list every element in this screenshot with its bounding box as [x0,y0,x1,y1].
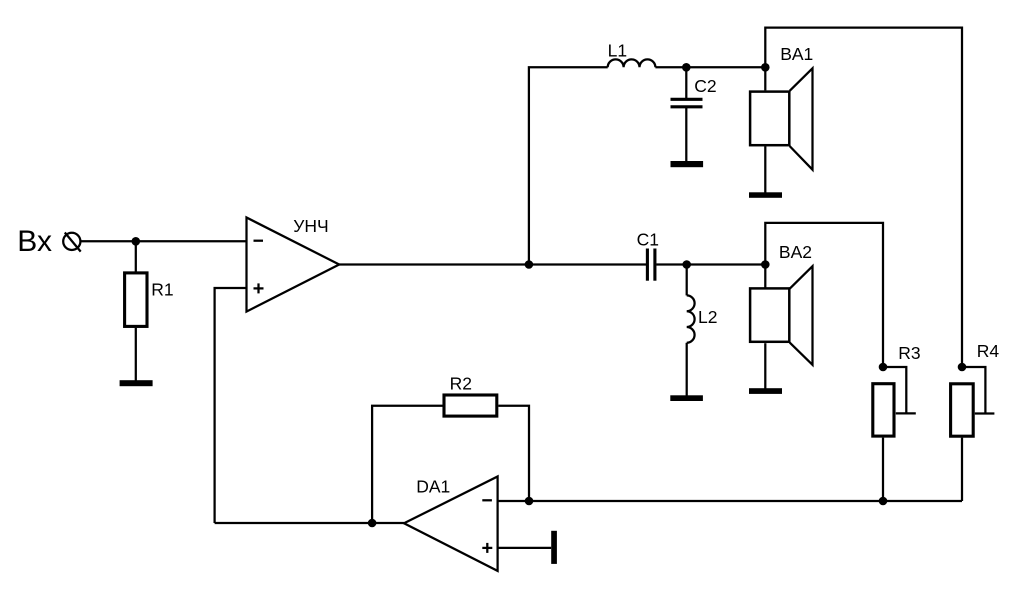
wire DA1 non-inverting input [498,547,552,549]
wire BA1 top lead [764,67,766,90]
wire C2 top lead [685,67,687,98]
loudspeaker BA1 [750,44,813,170]
svg-text:R1: R1 [151,280,173,300]
ground L2 [670,395,703,401]
node R3 top [879,363,888,372]
svg-text:УНЧ: УНЧ [293,216,328,236]
wire R2 left lead down to DA1 output [372,406,442,523]
wire DA1 inverting input bus to R3/R4 [498,500,962,502]
loudspeaker BA2 [750,242,812,365]
node input/R1 junction [132,237,141,246]
resistor R1 [125,273,174,327]
svg-text:C1: C1 [637,230,659,250]
wire R1 bottom lead [135,328,137,381]
svg-text:BA2: BA2 [779,242,812,262]
wire BA1 bottom lead [764,146,766,192]
wire R4 bottom lead [961,438,963,501]
node BA1 junction [761,63,770,72]
node R3/bus junction [879,497,888,506]
wire BA2 bottom lead [764,343,766,388]
node C1/L2 junction [682,260,691,269]
ground DA1 non-inverting input [551,531,557,564]
wire BA1 node to R4 (top right run) [765,28,962,367]
inductor L2 [687,295,718,342]
op-amp DA1 (feedback amplifier) [404,476,498,571]
svg-text:R3: R3 [898,343,920,363]
wire input to op-amp inverting input [80,240,246,242]
wire C2 bottom lead [685,108,687,162]
capacitor C2 [671,76,717,107]
variable resistor R3 [873,343,921,436]
wire L2 top lead [686,265,688,296]
node УНЧ output junction [525,260,534,269]
variable resistor R4 [951,341,1000,436]
capacitor C1 [637,230,659,281]
svg-text:R2: R2 [450,374,472,394]
node DA1 inverting/R2 junction [525,497,534,506]
wire R2 right lead down to DA1 inverting input [498,406,529,501]
wire BA2 top lead [764,265,766,289]
node DA1 output/R2 junction [368,519,377,528]
node BA2 junction [761,260,770,269]
wire R1 top lead [135,241,137,272]
svg-text:BA1: BA1 [780,44,813,64]
wire L2 bottom lead [686,343,688,396]
svg-text:C2: C2 [694,76,716,96]
op-amp УНЧ (power amplifier) [247,216,340,312]
wire УНЧ output to C1 [339,263,646,265]
ground BA2 [749,388,782,394]
svg-text:DA1: DA1 [416,476,450,496]
ground BA1 [749,192,782,198]
wire BA2 node to R3 (upper run) [765,223,883,367]
ground C2 [671,161,704,167]
wire УНЧ non-inverting input (feedback from DA1) [215,288,247,523]
connector XS1 input jack [63,233,80,252]
svg-text:R4: R4 [977,341,1000,361]
svg-text:L2: L2 [698,307,717,327]
resistor R2 [444,374,497,417]
wire output node up to L1 [529,67,608,264]
wire DA1 output to УНЧ feedback corner [215,522,404,524]
svg-text:L1: L1 [608,40,627,60]
wire C1 to BA2 [656,263,765,265]
node R4 top [958,363,967,372]
wire R3 bottom lead [882,438,884,501]
node L1/C2 junction [682,63,691,72]
inductor L1 [608,40,656,67]
svg-text:Вх: Вх [17,225,52,258]
wire L1 to BA1 [655,66,765,68]
ground R1 [120,380,153,386]
